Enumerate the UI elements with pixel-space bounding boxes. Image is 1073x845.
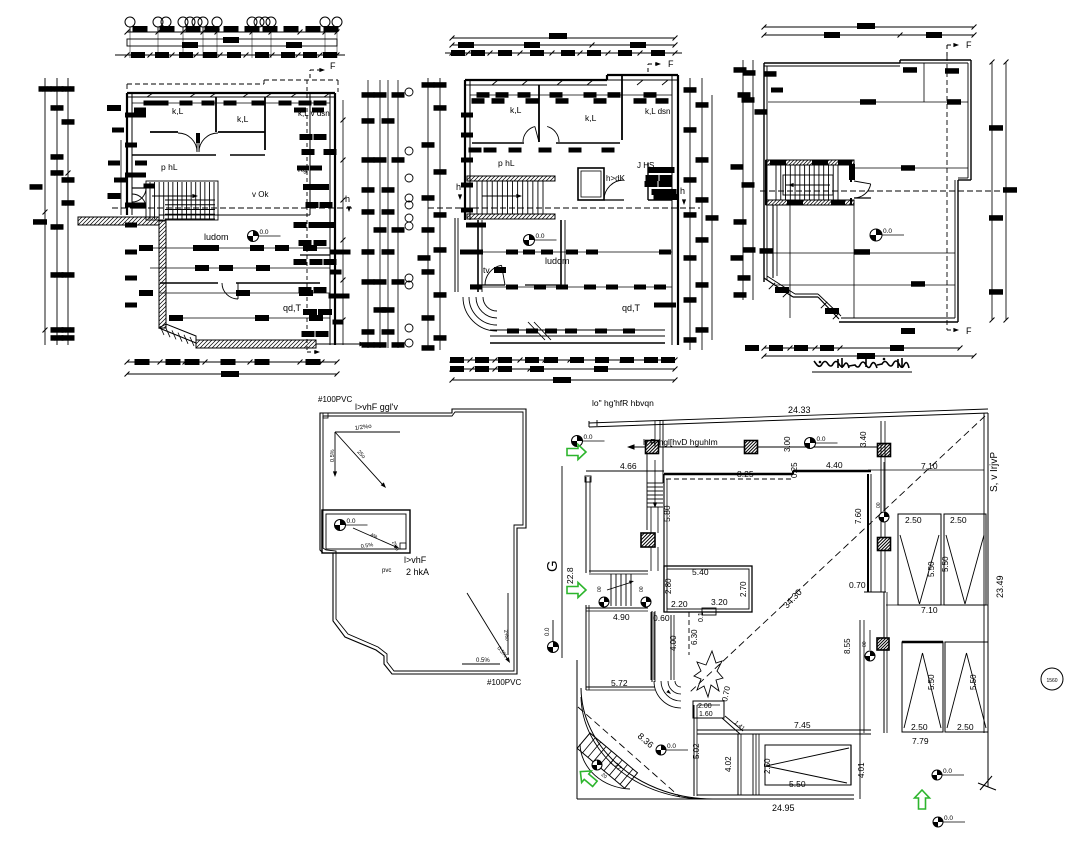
svg-text:p hL: p hL [498, 158, 515, 168]
svg-text:7.10: 7.10 [921, 605, 938, 615]
svg-text:ludom: ludom [545, 256, 570, 266]
svg-text:F: F [966, 326, 972, 336]
svg-text:k,L: k,L [585, 113, 597, 123]
svg-text:5.50: 5.50 [969, 674, 978, 690]
svg-text:k,L v dsn: k,L v dsn [298, 109, 330, 118]
svg-text:22.8: 22.8 [565, 567, 575, 584]
svg-text:G: G [544, 560, 561, 572]
svg-text:0.0: 0.0 [943, 768, 952, 775]
svg-text:8.25: 8.25 [737, 469, 754, 479]
svg-text:0.25: 0.25 [790, 462, 799, 478]
svg-text:tv: tv [483, 265, 490, 275]
svg-text:#100PVC: #100PVC [487, 678, 521, 687]
svg-text:F: F [330, 61, 336, 71]
svg-text:23.49: 23.49 [995, 575, 1005, 598]
svg-text:5.50: 5.50 [927, 561, 936, 577]
svg-text:0.5%: 0.5% [330, 449, 336, 462]
svg-text:h: h [456, 182, 461, 192]
svg-text:5.80: 5.80 [662, 505, 672, 522]
svg-text:4.02: 4.02 [724, 756, 733, 772]
svg-text:00: 00 [597, 586, 603, 592]
svg-text:5.50: 5.50 [927, 674, 936, 690]
svg-text:00: 00 [862, 641, 868, 647]
svg-text:lo" hg'hfR hbvqn: lo" hg'hfR hbvqn [592, 398, 654, 408]
svg-text:l>vhF: l>vhF [404, 555, 427, 565]
svg-text:7.45: 7.45 [794, 720, 811, 730]
svg-text:2.50: 2.50 [957, 722, 974, 732]
svg-text:3.40: 3.40 [859, 431, 868, 447]
svg-text:2.50: 2.50 [763, 758, 772, 774]
svg-text:l>vhF ggl'v: l>vhF ggl'v [355, 402, 398, 412]
svg-text:6.30: 6.30 [690, 629, 699, 645]
svg-text:p hL: p hL [161, 162, 178, 172]
svg-text:0.0: 0.0 [545, 627, 551, 636]
svg-text:2.00: 2.00 [698, 703, 712, 710]
svg-text:qd,T: qd,T [283, 303, 302, 313]
svg-text:qd,T: qd,T [622, 303, 641, 313]
svg-text:4.66: 4.66 [620, 461, 637, 471]
svg-text:5.50: 5.50 [789, 779, 806, 789]
svg-text:24.33: 24.33 [788, 405, 811, 415]
svg-text:1560: 1560 [1046, 678, 1057, 684]
svg-text:0.0: 0.0 [667, 743, 676, 750]
svg-text:4.90: 4.90 [613, 612, 630, 622]
svg-text:k,L dsn: k,L dsn [645, 107, 671, 116]
svg-text:0.0: 0.0 [944, 815, 953, 822]
svg-text:h: h [680, 186, 685, 196]
svg-text:2.50: 2.50 [905, 515, 922, 525]
svg-text:24.95: 24.95 [772, 803, 795, 813]
svg-text:0.0: 0.0 [260, 229, 269, 236]
svg-text:h: h [345, 194, 350, 204]
svg-text:4.00: 4.00 [669, 635, 678, 651]
svg-text:ludom: ludom [204, 232, 229, 242]
svg-text:k,L: k,L [172, 106, 184, 116]
svg-text:4.01: 4.01 [857, 762, 866, 778]
svg-text:4.40: 4.40 [826, 460, 843, 470]
svg-text:2.50: 2.50 [911, 722, 928, 732]
svg-text:0.70: 0.70 [849, 580, 866, 590]
svg-text:00: 00 [639, 586, 645, 592]
svg-text:0.0: 0.0 [536, 233, 545, 240]
svg-text:5.50: 5.50 [941, 556, 950, 572]
svg-text:v Ok: v Ok [252, 190, 269, 199]
svg-text:0.60: 0.60 [653, 613, 670, 623]
svg-text:2.50: 2.50 [950, 515, 967, 525]
svg-text:2.20: 2.20 [671, 599, 688, 609]
svg-text:0.0: 0.0 [883, 228, 892, 235]
svg-text:3.00: 3.00 [783, 436, 792, 452]
svg-text:0.1: 0.1 [698, 612, 705, 622]
svg-text:3.20: 3.20 [711, 597, 728, 607]
svg-text:00: 00 [876, 502, 882, 508]
svg-text:k,L: k,L [510, 105, 522, 115]
svg-text:5.40: 5.40 [692, 567, 709, 577]
svg-text:2.70: 2.70 [739, 581, 748, 597]
svg-text:2 hkA: 2 hkA [406, 567, 429, 577]
svg-text:pvc: pvc [382, 568, 391, 574]
svg-text:0.0: 0.0 [817, 436, 826, 443]
svg-text:F: F [966, 40, 972, 50]
svg-text:F: F [668, 59, 674, 69]
svg-text:2.80: 2.80 [664, 578, 673, 594]
svg-text:k,L: k,L [237, 114, 249, 124]
svg-text:8.55: 8.55 [843, 638, 852, 654]
svg-text:S, v IrjvP: S, v IrjvP [989, 452, 1000, 492]
svg-text:5.72: 5.72 [611, 678, 628, 688]
svg-text:5.02: 5.02 [692, 743, 701, 759]
svg-text:1.60: 1.60 [699, 711, 713, 718]
svg-text:0.0: 0.0 [347, 518, 356, 525]
svg-text:0.5%: 0.5% [476, 658, 490, 664]
svg-text:h R hgl[hvD hguhlm: h R hgl[hvD hguhlm [643, 437, 718, 447]
svg-text:7.60: 7.60 [854, 508, 863, 524]
svg-text:0.0: 0.0 [584, 434, 593, 441]
svg-text:7.79: 7.79 [912, 736, 929, 746]
svg-text:7.10: 7.10 [921, 461, 938, 471]
svg-text:Rg: Rg [298, 167, 307, 174]
svg-text:#100PVC: #100PVC [318, 395, 352, 404]
